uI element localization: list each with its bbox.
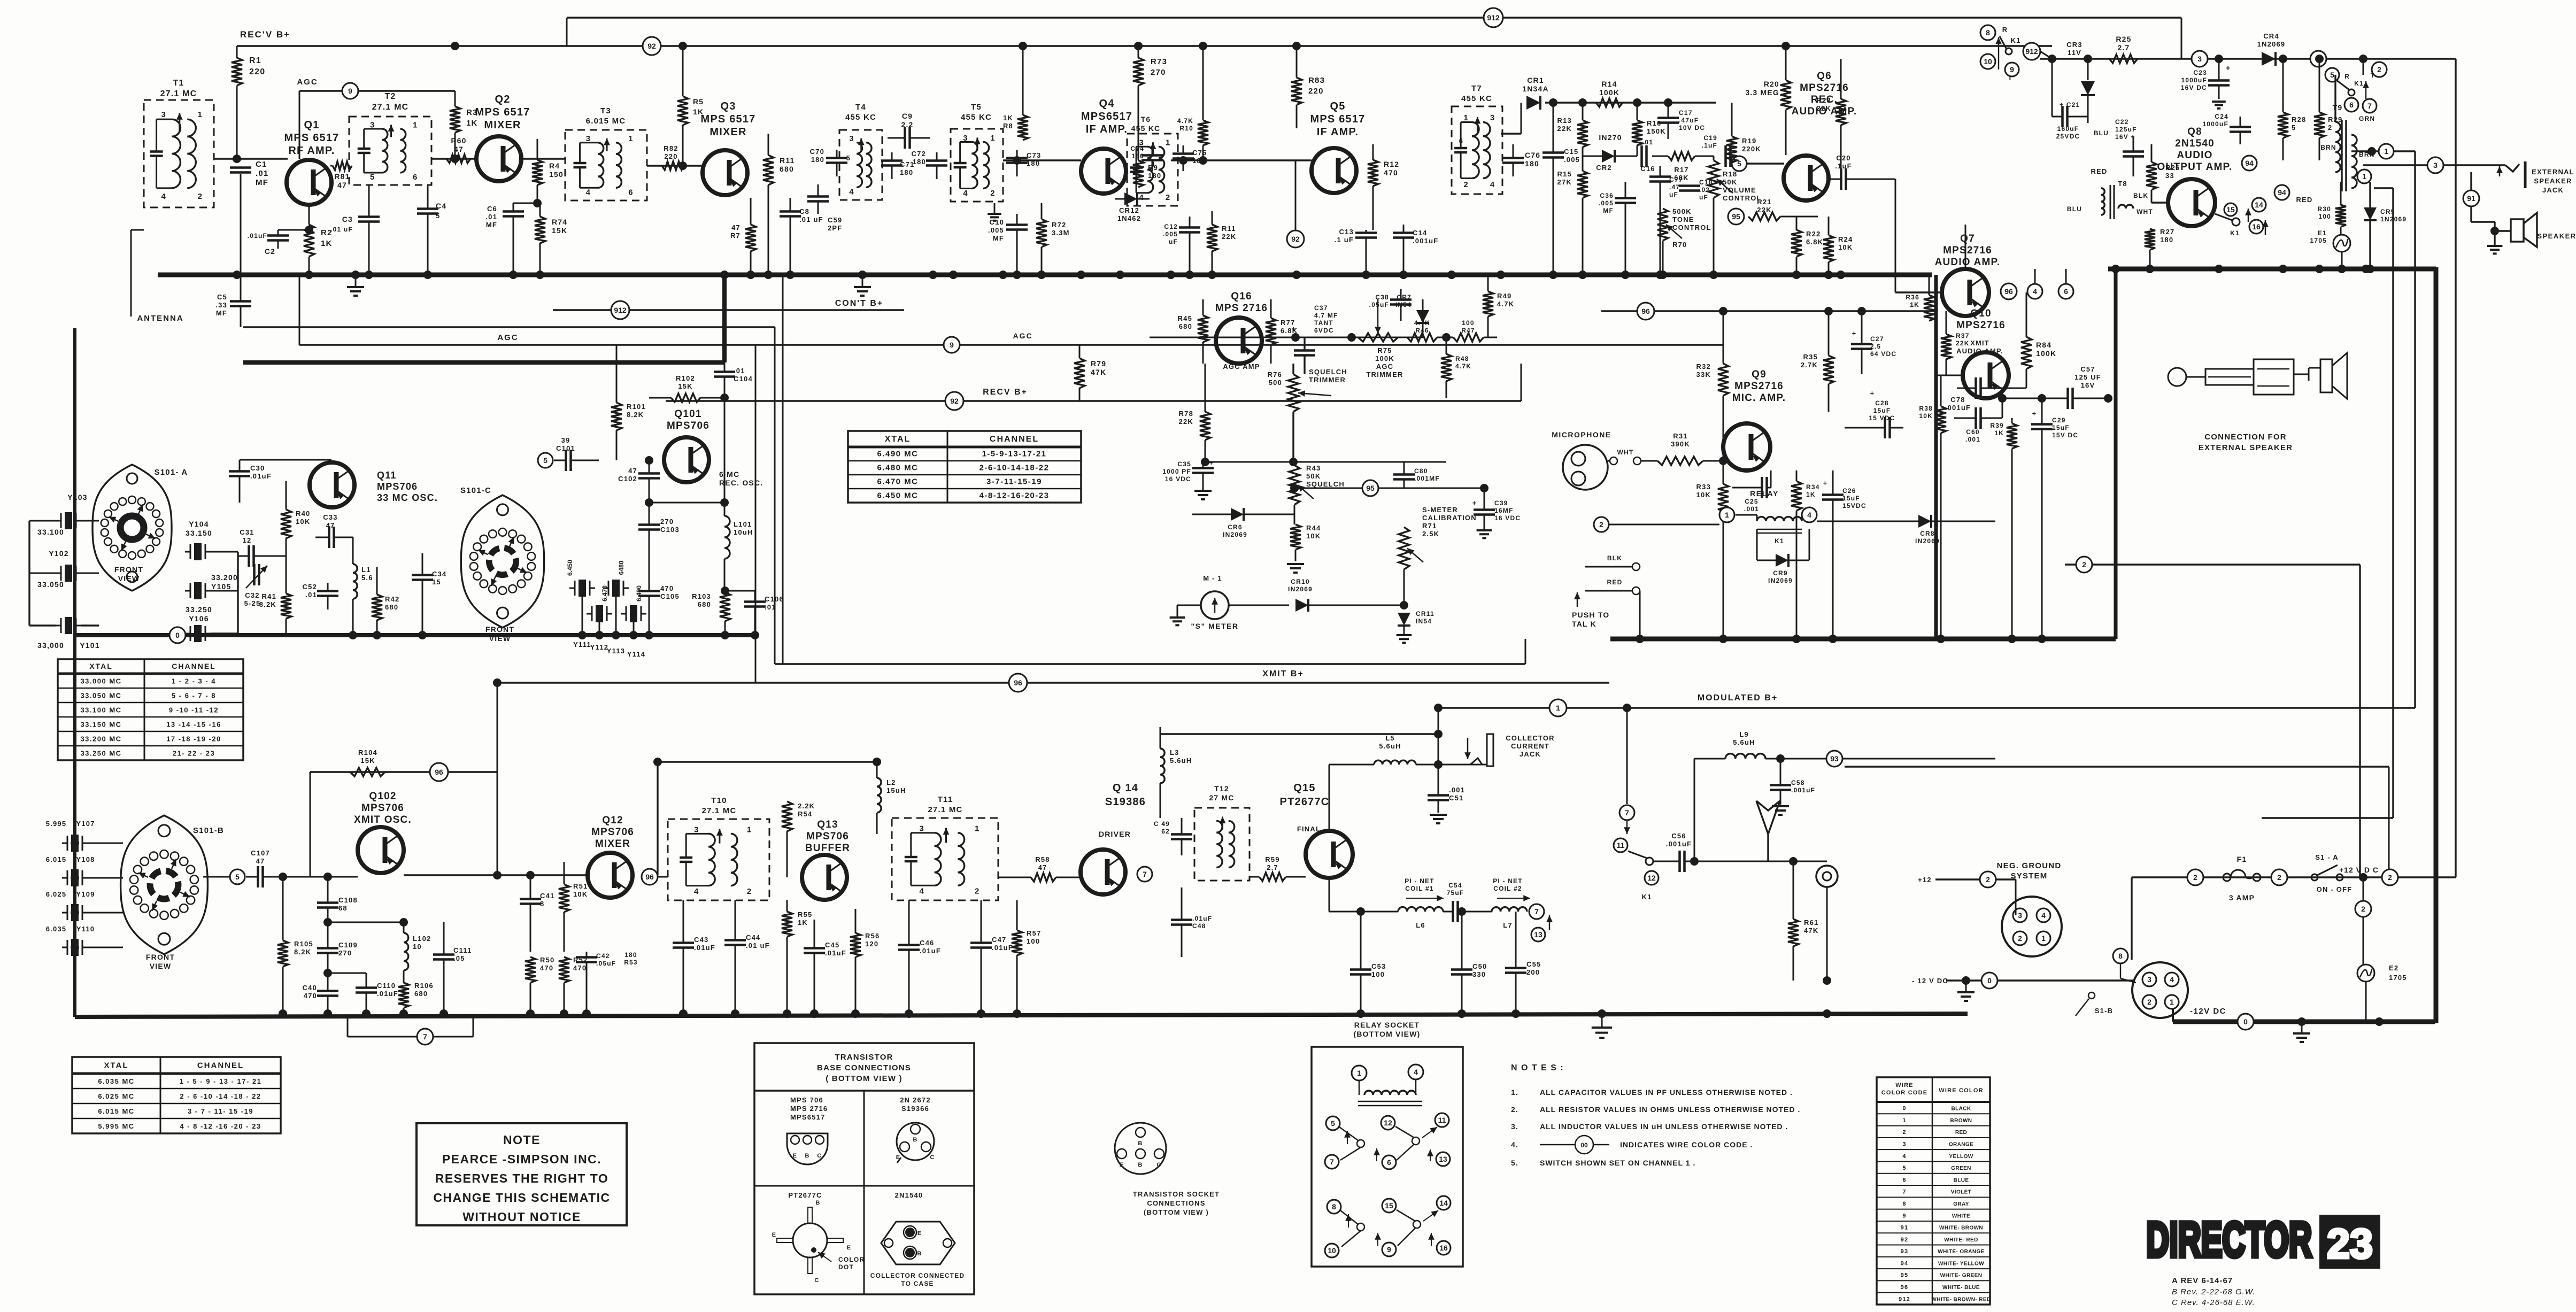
svg-text:33.050: 33.050 <box>37 580 64 589</box>
svg-text:Q101: Q101 <box>674 408 701 420</box>
svg-text:C5: C5 <box>217 293 227 301</box>
svg-text:C10: C10 <box>990 218 1004 226</box>
svg-text:R56: R56 <box>865 932 880 940</box>
svg-text:DIRECTOR: DIRECTOR <box>2146 1213 2312 1267</box>
svg-text:Q3: Q3 <box>720 101 736 112</box>
svg-text:C4: C4 <box>436 202 446 210</box>
wire xmit b+ line <box>497 682 1609 683</box>
wire t6 to q5 <box>1171 156 1312 165</box>
svg-text:6.450 MC: 6.450 MC <box>877 491 918 500</box>
svg-text:.005: .005 <box>1599 199 1614 207</box>
svg-text:WHITE- RED: WHITE- RED <box>1944 1237 1978 1243</box>
svg-text:R15: R15 <box>1557 170 1572 178</box>
svg-text:L7: L7 <box>1503 921 1513 929</box>
svg-text:5: 5 <box>235 873 240 881</box>
wire right edge drop <box>2455 59 2456 877</box>
svg-text:C110: C110 <box>377 982 396 990</box>
svg-text:CR9: CR9 <box>1773 569 1788 577</box>
label Q14 <box>1099 782 1146 838</box>
svg-text:R32: R32 <box>1696 362 1711 371</box>
svg-text:47: 47 <box>628 467 637 475</box>
svg-text:WIRE: WIRE <box>1895 1082 1914 1089</box>
svg-text:93: 93 <box>1901 1248 1909 1255</box>
svg-text:1K: 1K <box>798 919 808 927</box>
logo 23 box <box>2319 1215 2380 1269</box>
svg-text:1K: 1K <box>466 119 478 128</box>
svg-text:470: 470 <box>304 992 317 1000</box>
crystal Y101 <box>29 617 100 650</box>
crystal Y106 <box>185 552 238 642</box>
label Q3 <box>701 101 756 138</box>
svg-text:Q15: Q15 <box>1293 782 1315 794</box>
label Q7 <box>1935 233 2001 268</box>
svg-text:1N462: 1N462 <box>1117 214 1141 222</box>
svg-text:S1 - A: S1 - A <box>2315 853 2339 861</box>
svg-text:C19: C19 <box>1703 134 1717 142</box>
resistor R25 <box>2109 35 2138 63</box>
svg-text:R73: R73 <box>1151 57 1167 66</box>
label BLK RED ptt <box>1585 554 1640 595</box>
node dots neg12 <box>2297 1017 2384 1026</box>
label ON-OFF <box>2317 885 2353 893</box>
label MODULATED B+ <box>1698 693 1778 703</box>
svg-text:.1uF: .1uF <box>1702 142 1717 149</box>
svg-text:XMIT: XMIT <box>1970 339 1989 347</box>
resistor R7 <box>730 198 756 275</box>
svg-text:9: 9 <box>1387 1245 1391 1254</box>
svg-text:T5: T5 <box>971 103 982 112</box>
wire thick vert Q3 area <box>722 275 727 362</box>
svg-text:VIEW: VIEW <box>150 962 172 970</box>
svg-text:8.2K: 8.2K <box>259 600 276 608</box>
transformer T6 <box>1127 115 1178 206</box>
resistor R79 <box>1074 345 1106 401</box>
svg-text:47K: 47K <box>1804 927 1818 935</box>
capacitor C26 <box>1822 470 1867 639</box>
label AGC top <box>297 78 318 87</box>
svg-text:C35: C35 <box>1177 460 1191 468</box>
capacitor C72 <box>912 150 947 179</box>
svg-text:Y105: Y105 <box>211 582 232 591</box>
svg-text:CHANNEL: CHANNEL <box>990 435 1039 444</box>
svg-text:B: B <box>917 1251 922 1257</box>
capacitor C49 <box>1154 818 1192 855</box>
svg-text:CR8: CR8 <box>1920 530 1935 537</box>
svg-text:C23: C23 <box>2193 69 2207 76</box>
svg-text:C20: C20 <box>1836 154 1850 162</box>
capacitor C52 <box>303 583 338 609</box>
svg-text:1: 1 <box>990 134 994 143</box>
label BLU q7 <box>2067 205 2082 213</box>
svg-text:R44: R44 <box>1306 524 1321 532</box>
svg-text:C16: C16 <box>1640 165 1655 173</box>
svg-text:15VDC: 15VDC <box>1842 502 1867 510</box>
svg-text:C106: C106 <box>765 595 784 603</box>
svg-text:T9: T9 <box>2333 103 2343 112</box>
svg-text:100K: 100K <box>1599 88 1619 97</box>
svg-text:R70: R70 <box>1672 241 1687 249</box>
svg-text:4: 4 <box>2170 975 2174 984</box>
resistor R12 <box>1368 144 1399 230</box>
svg-text:1: 1 <box>747 825 751 834</box>
resistor R11b <box>1207 211 1236 275</box>
capacitor C108 <box>317 873 358 922</box>
svg-text:MF: MF <box>216 309 227 317</box>
svg-text:COLLECTOR CONNECTED: COLLECTOR CONNECTED <box>870 1272 965 1279</box>
resistor R13 <box>1557 98 1588 156</box>
wire recv B+ top rail 912 <box>567 18 2181 59</box>
svg-text:C30: C30 <box>250 464 265 472</box>
svg-text:M - 1: M - 1 <box>1203 574 1222 582</box>
svg-text:C: C <box>814 1277 819 1284</box>
svg-text:470: 470 <box>540 964 553 972</box>
transformer T2 <box>349 92 431 185</box>
capacitor C58 <box>1770 754 1815 815</box>
svg-text:R35: R35 <box>1803 353 1818 361</box>
svg-text:5.6uH: 5.6uH <box>1170 757 1192 765</box>
resistor R60 <box>446 136 471 163</box>
svg-text:6.490 MC: 6.490 MC <box>877 450 918 459</box>
wire q12 out <box>633 875 668 877</box>
svg-text:Y110: Y110 <box>76 925 95 933</box>
svg-text:180: 180 <box>1131 152 1144 160</box>
svg-text:GRN: GRN <box>2359 115 2375 122</box>
label BRN <box>2320 144 2336 151</box>
svg-text:WHITE- ORANGE: WHITE- ORANGE <box>1938 1249 1984 1255</box>
svg-text:ALL RESISTOR VALUES IN OHMS: ALL RESISTOR VALUES IN OHMS UNLESS OTHER… <box>1540 1105 1800 1114</box>
svg-text:16 VDC: 16 VDC <box>1494 514 1521 522</box>
node 8 bubble s1b <box>2113 948 2136 983</box>
svg-text:Q6: Q6 <box>1817 71 1832 82</box>
capacitor C104 <box>714 362 753 398</box>
svg-text:R1: R1 <box>249 56 261 65</box>
junction dots recv rail <box>451 42 1790 50</box>
resistor R54 <box>782 772 815 877</box>
svg-text:22K: 22K <box>1557 125 1572 133</box>
svg-text:10: 10 <box>1328 1246 1336 1255</box>
wire 96 line <box>1601 307 1936 315</box>
svg-text:7: 7 <box>423 1032 427 1041</box>
svg-text:SWITCH SHOWN SET ON CHANNEL: SWITCH SHOWN SET ON CHANNEL 1 . <box>1540 1159 1695 1167</box>
svg-text:MF: MF <box>256 178 268 187</box>
svg-text:ALL INDUCTOR VALUES IN uH: ALL INDUCTOR VALUES IN uH UNLESS OTHERWI… <box>1540 1122 1788 1131</box>
resistor R47 <box>1437 319 1497 342</box>
svg-text:22K: 22K <box>1179 418 1193 426</box>
svg-text:6: 6 <box>1459 137 1463 145</box>
svg-text:27.1 MC: 27.1 MC <box>928 805 962 814</box>
svg-text:CALIBRATION: CALIBRATION <box>1422 514 1477 522</box>
svg-text:C44: C44 <box>746 933 760 941</box>
svg-text:3.3M: 3.3M <box>1052 229 1070 237</box>
svg-text:MPS 6517: MPS 6517 <box>701 113 756 125</box>
transformer T3 <box>565 106 647 200</box>
transistor Q14 <box>1081 850 1125 894</box>
svg-text:94: 94 <box>1901 1260 1909 1267</box>
transformer T12 <box>1194 784 1250 881</box>
svg-text:16: 16 <box>1439 1244 1448 1252</box>
svg-text:7: 7 <box>1902 1189 1906 1195</box>
capacitor C45 <box>804 920 846 1014</box>
wire q2 to t3 <box>520 158 565 159</box>
node 9 bubble AGC mid <box>944 337 960 353</box>
capacitor C6 <box>485 203 524 275</box>
svg-text:R37: R37 <box>1956 332 1970 339</box>
svg-text:912: 912 <box>1487 13 1500 22</box>
svg-text:100: 100 <box>1027 937 1040 945</box>
svg-text:B: B <box>1138 1162 1143 1168</box>
svg-text:Y102: Y102 <box>49 549 69 558</box>
svg-text:.001: .001 <box>1965 436 1980 443</box>
label F1 3AMP <box>2229 855 2255 902</box>
svg-text:1: 1 <box>2384 147 2388 156</box>
svg-text:92: 92 <box>950 397 959 405</box>
svg-text:62: 62 <box>1161 828 1170 835</box>
svg-text:RED: RED <box>1607 578 1623 586</box>
wire AGC mid line <box>299 275 1723 345</box>
svg-text:R39: R39 <box>1990 422 2004 429</box>
resistor R103 <box>692 586 730 635</box>
svg-text:180: 180 <box>1148 172 1161 180</box>
capacitor C28 <box>1845 389 1903 438</box>
svg-text:.01uF: .01uF <box>377 990 398 998</box>
svg-text:10K: 10K <box>1696 491 1711 499</box>
svg-text:Q1: Q1 <box>304 119 319 131</box>
svg-text:22K: 22K <box>1222 233 1236 241</box>
node 912 bubble on top rail <box>1484 8 1503 27</box>
svg-text:WHITE- BLUE: WHITE- BLUE <box>1942 1285 1980 1291</box>
svg-text:XMIT OSC.: XMIT OSC. <box>354 814 412 825</box>
connector neg ground <box>2002 879 2062 956</box>
svg-text:A REV 6-14-67: A REV 6-14-67 <box>2172 1276 2233 1285</box>
capacitor C38 <box>1369 289 1412 321</box>
svg-text:CR5: CR5 <box>2380 208 2395 215</box>
svg-text:L101: L101 <box>734 520 752 528</box>
label front view a <box>114 565 143 583</box>
capacitor C107 <box>246 849 358 887</box>
capacitor C111 <box>433 922 472 1014</box>
capacitor C48 <box>1171 887 1212 957</box>
svg-text:6.490: 6.490 <box>635 585 643 601</box>
svg-text:WHT: WHT <box>2137 208 2153 215</box>
svg-text:C48: C48 <box>1192 922 1206 930</box>
svg-text:C53: C53 <box>1371 962 1386 970</box>
capacitor C102 <box>618 456 660 503</box>
svg-text:96: 96 <box>1901 1284 1909 1291</box>
svg-text:CHANGE THIS SCHEMATIC: CHANGE THIS SCHEMATIC <box>433 1191 610 1205</box>
label RED rot <box>2091 128 2107 175</box>
transistor base connections box <box>754 1043 974 1294</box>
label AGC mid <box>497 333 518 342</box>
svg-text:27.1 MC: 27.1 MC <box>372 103 409 112</box>
transformer T11 <box>892 795 998 900</box>
svg-text:C6: C6 <box>487 205 497 213</box>
resistor R32 <box>1696 311 1729 461</box>
svg-text:220K: 220K <box>1742 145 1761 153</box>
ext speaker diagram <box>2168 353 2347 399</box>
svg-text:VIEW: VIEW <box>118 574 140 583</box>
svg-text:L1: L1 <box>361 566 371 574</box>
crystal Y113 <box>603 560 629 655</box>
svg-text:33.250: 33.250 <box>186 605 212 614</box>
svg-text:120: 120 <box>865 940 878 948</box>
capacitor C33 <box>315 513 353 548</box>
wire r104 line <box>310 683 497 877</box>
svg-text:100: 100 <box>1371 970 1385 978</box>
svg-text:680: 680 <box>780 165 794 173</box>
diode CR10 <box>1288 578 1404 612</box>
svg-text:6.025 MC: 6.025 MC <box>98 1092 134 1100</box>
crystal Y114 <box>621 585 646 658</box>
svg-text:3.3 MEG: 3.3 MEG <box>1745 88 1779 97</box>
svg-text:C33: C33 <box>323 513 337 521</box>
svg-text:C 49: C 49 <box>1154 820 1170 828</box>
svg-text:K1: K1 <box>1641 893 1652 901</box>
resistor R58 <box>998 855 1081 882</box>
svg-text:C47: C47 <box>992 936 1006 944</box>
capacitor C50 <box>1451 912 1487 1014</box>
svg-text:15K: 15K <box>360 757 375 765</box>
node 91 bubble <box>2463 172 2485 222</box>
svg-text:180: 180 <box>913 158 926 166</box>
svg-text:95: 95 <box>1366 484 1375 492</box>
svg-text:C59: C59 <box>828 216 842 224</box>
svg-text:Q7: Q7 <box>1960 233 1975 244</box>
transistor Q4 <box>1081 149 1126 194</box>
svg-text:5.: 5. <box>1511 1159 1518 1167</box>
svg-text:TO CASE: TO CASE <box>901 1280 934 1287</box>
svg-text:6480: 6480 <box>618 560 625 575</box>
svg-text:912: 912 <box>1899 1296 1910 1302</box>
svg-text:.33: .33 <box>215 301 227 309</box>
svg-text:1K: 1K <box>1806 491 1816 498</box>
inductor L7 <box>1457 907 1527 929</box>
svg-text:0: 0 <box>2243 1017 2248 1026</box>
svg-text:150: 150 <box>549 170 564 179</box>
label Q1 <box>284 119 340 157</box>
capacitor C56 <box>1653 832 1827 872</box>
svg-text:XTAL: XTAL <box>104 1061 128 1070</box>
relay contacts top <box>1980 25 2052 82</box>
svg-text:1: 1 <box>1357 1069 1361 1077</box>
svg-text:Q9: Q9 <box>1752 369 1767 380</box>
relay socket box <box>1312 1021 1463 1267</box>
svg-text:R43: R43 <box>1306 464 1321 472</box>
svg-text:MODULATED B+: MODULATED B+ <box>1698 693 1778 703</box>
speaker main <box>2471 188 2537 253</box>
svg-text:2.7: 2.7 <box>2117 43 2130 52</box>
capacitor C80 <box>1393 462 1440 488</box>
svg-text:270: 270 <box>338 949 352 957</box>
svg-text:455 KC: 455 KC <box>1131 124 1161 133</box>
svg-text:.05: .05 <box>453 954 465 962</box>
svg-text:470: 470 <box>660 584 674 592</box>
crystal Y110 <box>46 925 123 956</box>
svg-text:E: E <box>772 1232 777 1238</box>
svg-text:2: 2 <box>2082 560 2086 569</box>
capacitor C75 <box>1173 145 1207 171</box>
svg-text:S101- A: S101- A <box>155 468 188 477</box>
wire meter <box>1170 605 1289 625</box>
svg-text:R11: R11 <box>1222 225 1236 233</box>
label Q2 <box>475 94 530 131</box>
svg-text:B Rev. 2-22-68 G.W.: B Rev. 2-22-68 G.W. <box>2172 1287 2256 1296</box>
svg-text:BLK: BLK <box>1607 554 1622 562</box>
svg-text:4.: 4. <box>1511 1140 1518 1149</box>
resistor R31 <box>1657 432 1723 465</box>
rotary switch S101-A <box>92 465 188 591</box>
svg-text:R103: R103 <box>692 592 711 600</box>
svg-text:2PF: 2PF <box>828 224 842 232</box>
svg-text:K1: K1 <box>2354 80 2364 87</box>
svg-text:8: 8 <box>1332 1202 1336 1211</box>
resistor R106 <box>398 978 434 1014</box>
wire mod to L5 <box>1434 704 1443 769</box>
label XMIT B+ <box>1262 669 1304 678</box>
svg-text:6: 6 <box>628 188 633 197</box>
svg-text:6: 6 <box>413 173 417 182</box>
svg-text:T7: T7 <box>1471 84 1482 93</box>
connector S1-B <box>2132 962 2188 1018</box>
svg-text:2-6-10-14-18-22: 2-6-10-14-18-22 <box>980 464 1050 473</box>
svg-text:1: 1 <box>628 134 633 143</box>
svg-text:15uF: 15uF <box>1873 407 1891 414</box>
svg-text:3: 3 <box>1139 138 1143 148</box>
svg-text:REC'V B+: REC'V B+ <box>240 29 290 40</box>
svg-text:R101: R101 <box>627 403 646 411</box>
svg-text:13: 13 <box>1439 1155 1447 1163</box>
diode CR7 <box>1395 294 1429 337</box>
svg-text:R4: R4 <box>549 161 560 170</box>
svg-text:94: 94 <box>2245 159 2254 167</box>
capacitor C10 <box>988 214 1028 275</box>
svg-text:33: 33 <box>2165 172 2174 180</box>
svg-text:SPEAKER: SPEAKER <box>2537 232 2576 240</box>
svg-text:16MF: 16MF <box>1494 507 1513 514</box>
svg-text:2: 2 <box>2377 65 2381 74</box>
inductor L102 <box>323 918 431 978</box>
svg-text:3-7-11-15-19: 3-7-11-15-19 <box>986 477 1042 487</box>
crystal Y111 <box>566 560 595 649</box>
svg-text:27.1 MC: 27.1 MC <box>701 806 736 815</box>
svg-text:470: 470 <box>1384 168 1398 177</box>
resistor R5 <box>677 46 704 170</box>
svg-text:NEG. GROUND: NEG. GROUND <box>1997 861 2062 870</box>
svg-text:FRONT: FRONT <box>146 953 175 961</box>
svg-text:1K: 1K <box>1994 429 2004 437</box>
svg-text:R30: R30 <box>2317 205 2331 213</box>
label SPEAKER <box>2537 232 2576 240</box>
capacitor C77 <box>1649 166 1683 275</box>
resistor R37 <box>1941 311 1970 375</box>
svg-text:C3: C3 <box>342 215 353 223</box>
svg-text:PI - NET: PI - NET <box>1493 877 1523 885</box>
svg-text:OUTPUT AMP.: OUTPUT AMP. <box>2157 161 2233 173</box>
capacitor C105 <box>638 564 680 635</box>
svg-text:R55: R55 <box>798 910 812 919</box>
svg-text:IN2069: IN2069 <box>1223 531 1247 538</box>
svg-text:Q102: Q102 <box>369 791 396 802</box>
meter M1 <box>1191 574 1238 630</box>
wire RECV B+ rail <box>237 45 2052 47</box>
svg-text:8.2K: 8.2K <box>294 948 311 956</box>
svg-text:C: C <box>1156 1162 1161 1168</box>
svg-text:R11: R11 <box>780 156 795 165</box>
wire thick right tall <box>2434 267 2439 1023</box>
node 1 bubbles t9 <box>2351 151 2371 183</box>
svg-text:C13: C13 <box>1339 228 1354 236</box>
svg-text:C41: C41 <box>540 892 554 900</box>
label Q6 <box>1792 71 1857 117</box>
